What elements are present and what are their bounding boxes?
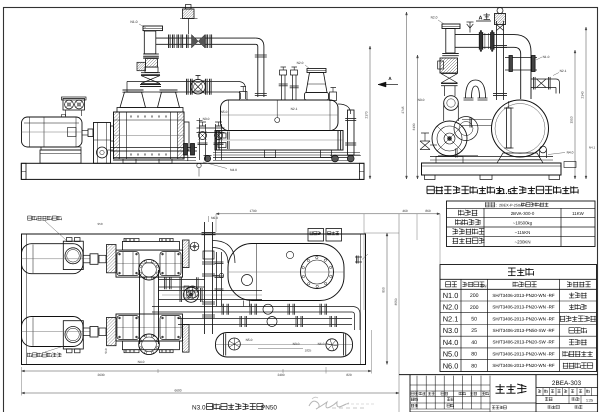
svg-text:2BEX-P-250A/: 2BEX-P-250A/: [499, 203, 525, 207]
suction header pipe to pump: [127, 76, 246, 100]
A-view base frame: [422, 157, 562, 180]
svg-text:25: 25: [471, 328, 477, 334]
A-view valve actuator top: [495, 8, 506, 31]
A-view direction label: [476, 13, 491, 22]
svg-text:N3.0: N3.0: [203, 117, 210, 121]
vessel exhaust cone N2.0: [297, 61, 329, 100]
A-view dimensions: [417, 55, 419, 179]
plan pipe arc to vessel: [209, 216, 236, 263]
svg-text:3550: 3550: [394, 298, 398, 305]
svg-text:≥1.5: ≥1.5: [498, 187, 512, 196]
pump P1 gear end: [183, 240, 199, 268]
small valve right of vessel plan: [355, 254, 368, 264]
motor M1 plan view: [22, 238, 91, 274]
svg-text:N2.1: N2.1: [291, 107, 298, 111]
svg-text:2630: 2630: [97, 373, 104, 377]
nozzle table: [440, 265, 597, 372]
svg-text:N5.0: N5.0: [443, 350, 459, 359]
svg-text::: :: [496, 203, 497, 208]
svg-text:SH/T3406-2013-PN20-WN -RF: SH/T3406-2013-PN20-WN -RF: [492, 351, 555, 356]
piping below vessel plan: [152, 301, 360, 331]
pump P2 plan view: [116, 314, 183, 353]
svg-text:1825: 1825: [305, 349, 312, 353]
svg-text:850: 850: [382, 287, 386, 293]
svg-text:2400: 2400: [277, 373, 284, 377]
svg-text:PN50: PN50: [261, 405, 277, 412]
motor junction label bottom: [28, 346, 65, 357]
side view base frame: [21, 158, 364, 180]
separator vessel plan view: [228, 244, 344, 301]
title block: [399, 375, 598, 412]
inlet valve stack on pump: [137, 26, 163, 87]
svg-text:~230KN: ~230KN: [515, 239, 531, 244]
clearance note text: [427, 186, 578, 196]
vessel end circle A-view: [492, 100, 549, 157]
svg-text:N2.0: N2.0: [431, 16, 438, 20]
svg-text:N6.0: N6.0: [211, 216, 218, 220]
heat exchanger plan view: [216, 333, 353, 358]
title drawing number cell: [536, 380, 598, 404]
pump discharge pipe to vessel plan: [159, 287, 263, 302]
instrument junction boxes: [308, 229, 342, 242]
svg-text:2140: 2140: [581, 91, 585, 98]
svg-text:820: 820: [346, 373, 352, 377]
central manifold pipe plan: [139, 259, 160, 354]
base small pump: [97, 147, 114, 158]
svg-text:N1.0: N1.0: [543, 55, 550, 59]
svg-text:N3.0: N3.0: [192, 405, 206, 412]
svg-text:SH/T3406-2013-PN20-WN -RF: SH/T3406-2013-PN20-WN -RF: [492, 363, 555, 368]
svg-text:N1.0: N1.0: [443, 291, 459, 300]
svg-text:N5.0: N5.0: [246, 338, 253, 342]
svg-text:N4.0: N4.0: [567, 151, 574, 155]
svg-text:950: 950: [97, 222, 102, 226]
pump P2 gear end: [183, 286, 199, 352]
pump end circles A-view: [432, 117, 478, 157]
A-view elbow and right downpipe: [514, 35, 531, 99]
A-view small valve left of riser: [467, 22, 474, 33]
A-view nozzle N1.0 stub: [505, 55, 550, 72]
dimension 2170 side view: [369, 46, 371, 179]
svg-text:N6.0: N6.0: [443, 361, 459, 370]
svg-text:N2.0: N2.0: [297, 61, 304, 65]
svg-text:1790: 1790: [249, 209, 256, 213]
note N3.0 PN50 text: [192, 404, 277, 412]
svg-text:DN: DN: [480, 283, 486, 288]
title block small labels: [410, 390, 598, 412]
svg-text:80: 80: [471, 352, 477, 358]
vessel relief valve stacks: [279, 67, 299, 100]
spec table: [447, 201, 596, 247]
svg-text:3130: 3130: [412, 123, 416, 130]
svg-text:N2.1: N2.1: [443, 314, 459, 323]
top pipe elbow down to vessel: [255, 38, 267, 97]
pump suction trapezoids: [117, 90, 183, 112]
A-view pump saddle: [436, 157, 463, 164]
A-view left riser N2.0: [431, 16, 460, 122]
bearing bracket plan B: [107, 317, 117, 345]
A-view branch N2.1 right: [531, 69, 567, 94]
A-view center riser: [493, 21, 507, 100]
svg-text:N4.0: N4.0: [138, 360, 145, 364]
pump drain pipe along base: [110, 144, 212, 162]
pump P1 plan view: [116, 238, 183, 277]
svg-text:1:25: 1:25: [586, 399, 593, 403]
coupling plan B: [83, 327, 106, 338]
bearing pedestal: [94, 123, 111, 164]
hx left end fittings: [218, 132, 229, 150]
A-view U-bend discharge: [464, 80, 488, 100]
motor M1 side view: [22, 115, 83, 164]
svg-text:80: 80: [471, 363, 477, 369]
motor junction label top: [28, 216, 67, 240]
svg-text:2BVA-300-0: 2BVA-300-0: [511, 211, 535, 216]
svg-text:2BEA-303: 2BEA-303: [552, 380, 582, 387]
svg-text:SH/T3406-2013-PN20-WN -RF: SH/T3406-2013-PN20-WN -RF: [492, 305, 555, 310]
svg-text:~115KN: ~115KN: [515, 230, 531, 235]
svg-text:N1.0: N1.0: [130, 20, 137, 24]
A-view lower connections: [438, 118, 574, 159]
separator vessel side view: [221, 100, 339, 131]
plan top dimension line: [97, 209, 440, 412]
svg-text:50: 50: [471, 317, 477, 323]
vacuum pump body side view: [111, 112, 190, 163]
svg-text:N2.1: N2.1: [560, 69, 567, 73]
title drawing name cell: [490, 384, 536, 403]
svg-text:460: 460: [402, 209, 408, 213]
svg-text:6600: 6600: [174, 388, 181, 392]
svg-text:N5.0: N5.0: [221, 110, 228, 114]
svg-text:N6.0: N6.0: [318, 342, 325, 346]
plan bottom dimension lines: [22, 330, 400, 396]
vessel right end piping: [330, 88, 362, 162]
view A arrow: [378, 76, 398, 87]
shaft coupling: [82, 129, 93, 137]
svg-text:40: 40: [471, 340, 477, 346]
motor M2 plan view: [22, 317, 91, 353]
plan view base plate: [22, 234, 366, 365]
svg-text:SH/T3406-2013-PN20-WN -RF: SH/T3406-2013-PN20-WN -RF: [492, 293, 555, 298]
svg-text:200: 200: [470, 293, 479, 299]
svg-text:N4.0: N4.0: [230, 168, 237, 172]
coupling plan A: [83, 254, 106, 264]
dimension 2745 side view: [406, 12, 408, 179]
A-view main horizontal pipe: [455, 30, 514, 51]
svg-text:860: 860: [425, 209, 431, 213]
svg-text:2745: 2745: [401, 106, 405, 113]
plan nozzle labels: [104, 338, 325, 364]
svg-text:~10500kg: ~10500kg: [513, 221, 533, 226]
svg-text:1510: 1510: [570, 116, 574, 123]
svg-text:11KW: 11KW: [572, 211, 584, 216]
svg-text:2170: 2170: [365, 111, 369, 118]
svg-text:N4.0: N4.0: [443, 338, 459, 347]
svg-text:N3.0: N3.0: [418, 98, 425, 102]
vessel top fittings left: [221, 87, 298, 123]
A-view drain valve left: [418, 98, 437, 150]
top pipe run with control valve: [156, 5, 255, 49]
valve cluster right of pump: [197, 117, 225, 160]
svg-text:SH/T3406-2013-PN20-WN -RF: SH/T3406-2013-PN20-WN -RF: [492, 316, 555, 321]
watermark signature: [309, 401, 349, 409]
svg-text:510: 510: [104, 348, 108, 353]
plan vertical pipe from vessel left: [215, 252, 224, 306]
bearing bracket plan A: [107, 245, 117, 273]
gear unit on motor top: [62, 97, 87, 116]
svg-text:200: 200: [470, 305, 479, 311]
svg-text:N4.1: N4.1: [589, 146, 596, 150]
svg-text:N3.0: N3.0: [293, 342, 300, 346]
manifold branch to right: [159, 277, 205, 289]
right vertical pipe plan: [202, 222, 224, 334]
svg-text:N3.0: N3.0: [443, 326, 459, 335]
svg-text:SH/T3406-2013-PN20-SW -RF: SH/T3406-2013-PN20-SW -RF: [492, 340, 554, 345]
heat exchanger side view: [213, 130, 360, 157]
svg-text:N2.0: N2.0: [443, 303, 459, 312]
A-view vessel saddle: [497, 153, 543, 163]
svg-text:SH/T3406-2013-PN50-SW -RF: SH/T3406-2013-PN50-SW -RF: [492, 328, 554, 333]
